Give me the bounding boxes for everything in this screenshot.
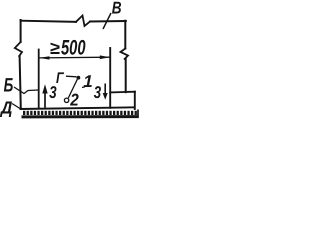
svg-text:Д: Д [0,97,13,117]
svg-text:3: 3 [94,83,102,102]
svg-text:2: 2 [69,90,79,109]
floor hatch cells [23,111,139,115]
svg-text:≥: ≥ [50,38,60,58]
exit arrow up [44,94,46,108]
leader for Г horizontal [66,75,77,78]
floor right edge [137,110,139,119]
wall top edge right segment [90,20,126,23]
floor bottom line [22,115,139,118]
dimension line [40,56,110,59]
svg-text:1: 1 [83,72,92,91]
sling point circle [64,98,68,102]
dimension arrow left [39,56,50,59]
screen line Б (inner left vertical) [38,50,40,109]
wall left break mark [15,42,22,56]
wall top edge left segment [21,21,77,22]
leader dot [77,76,81,80]
svg-text:Б: Б [4,74,14,96]
bench top at right [110,91,135,94]
wall top edge break mark [76,16,90,27]
tick under 1 [82,86,85,89]
dimension arrow right [100,55,110,59]
leader for Д [12,104,20,109]
equipment edge (inner right vertical) [109,48,111,108]
bench front vertical [134,92,136,109]
floor top line [20,107,136,109]
svg-text:3: 3 [49,83,57,102]
leader for Б [14,87,39,94]
wall right upper segment [124,21,126,49]
wall left upper segment [20,20,22,42]
wall right break mark [121,49,129,60]
svg-text:Г: Г [56,70,65,87]
wall right lower segment [125,59,127,92]
svg-text:В: В [112,0,122,17]
leader diagonal [68,79,77,98]
wall left lower segment [20,56,21,109]
leader slash for В [103,13,111,29]
svg-text:500: 500 [61,37,86,60]
entry arrow down [104,84,106,94]
